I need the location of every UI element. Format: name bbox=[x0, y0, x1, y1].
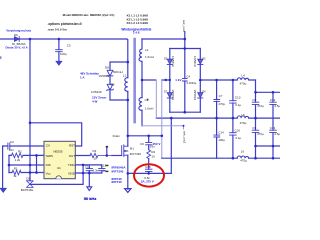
svg-text:50 kHz: 50 kHz bbox=[84, 196, 97, 201]
svg-text:.options plotwinsize=0: .options plotwinsize=0 bbox=[48, 22, 82, 26]
svg-text:M1: M1 bbox=[130, 147, 134, 151]
svg-text:NE555: NE555 bbox=[53, 149, 63, 153]
svg-text:1.6mH: 1.6mH bbox=[145, 55, 154, 59]
svg-text:D6: D6 bbox=[14, 33, 18, 37]
svg-text:C4: C4 bbox=[186, 75, 190, 79]
svg-text:D4: D4 bbox=[202, 90, 206, 94]
svg-text:R4: R4 bbox=[151, 150, 155, 154]
svg-text:R1: R1 bbox=[14, 167, 18, 171]
svg-text:C7: C7 bbox=[219, 94, 223, 98]
svg-text:TRIG: TRIG bbox=[68, 163, 75, 167]
svg-text:D5: D5 bbox=[164, 56, 168, 60]
svg-text:IRF7340: IRF7340 bbox=[130, 152, 142, 156]
svg-text:D7: D7 bbox=[164, 90, 168, 94]
svg-text:RST: RST bbox=[69, 144, 75, 148]
svg-text:IRF740: IRF740 bbox=[112, 180, 122, 184]
svg-text:C2: C2 bbox=[10, 140, 14, 144]
svg-text:1N5819: 1N5819 bbox=[171, 56, 175, 67]
svg-text:C5: C5 bbox=[67, 44, 71, 48]
svg-text:sek_out1: sek_out1 bbox=[182, 20, 186, 33]
svg-text:0.0033µ: 0.0033µ bbox=[187, 81, 197, 85]
svg-text:C13: C13 bbox=[270, 126, 276, 130]
svg-text:0.1µ: 0.1µ bbox=[235, 103, 241, 107]
svg-text:THRS: THRS bbox=[45, 154, 53, 158]
svg-text:C10: C10 bbox=[235, 96, 241, 100]
svg-text:L2: L2 bbox=[145, 48, 149, 52]
svg-text:IRF7340: IRF7340 bbox=[112, 170, 124, 174]
svg-text:L1: L1 bbox=[123, 73, 127, 77]
svg-text:Diode 20 V, >2 A: Diode 20 V, >2 A bbox=[6, 46, 29, 50]
svg-text:4.5µ: 4.5µ bbox=[274, 104, 280, 108]
svg-text:C14: C14 bbox=[218, 131, 224, 135]
svg-text:BAT54RL: BAT54RL bbox=[21, 188, 34, 192]
svg-text:D9: D9 bbox=[111, 83, 115, 87]
svg-text:C9: C9 bbox=[252, 126, 256, 130]
svg-text:0.1µ: 0.1µ bbox=[235, 136, 241, 140]
svg-text:1N5819: 1N5819 bbox=[193, 90, 197, 101]
svg-text:.tran 0 6.5 5m: .tran 0 6.5 5m bbox=[48, 27, 68, 31]
svg-text:DIS: DIS bbox=[46, 163, 51, 167]
svg-text:470µ: 470µ bbox=[240, 82, 247, 86]
svg-text:GND: GND bbox=[68, 171, 76, 175]
svg-text:10n: 10n bbox=[9, 148, 14, 152]
svg-text:CV: CV bbox=[46, 144, 50, 148]
svg-text:10: 10 bbox=[151, 155, 155, 159]
svg-text:C16: C16 bbox=[235, 129, 241, 133]
svg-text:C8: C8 bbox=[252, 98, 256, 102]
svg-text:10: 10 bbox=[93, 157, 97, 161]
svg-text:2A, 275 V: 2A, 275 V bbox=[141, 180, 154, 184]
svg-text:C1: C1 bbox=[85, 164, 89, 168]
svg-text:K3 L2 L3 0.998: K3 L2 L3 0.998 bbox=[127, 21, 148, 25]
svg-text:470µ: 470µ bbox=[240, 158, 247, 162]
svg-text:L6: L6 bbox=[241, 149, 245, 153]
svg-text:C12: C12 bbox=[270, 98, 276, 102]
svg-text:OUT: OUT bbox=[69, 154, 76, 158]
svg-text:1N5819: 1N5819 bbox=[171, 90, 175, 101]
svg-text:470µ: 470µ bbox=[218, 102, 225, 106]
svg-text:250 V: 250 V bbox=[153, 142, 161, 146]
svg-text:Verpolungsschutz: Verpolungsschutz bbox=[6, 28, 31, 32]
svg-text:3.3n: 3.3n bbox=[93, 169, 99, 173]
svg-text:1.2k: 1.2k bbox=[15, 158, 21, 162]
svg-text:1N5349: 1N5349 bbox=[91, 90, 102, 94]
svg-text:sek_out2: sek_out2 bbox=[182, 131, 186, 144]
svg-text:.Model MBR040 ako: MBR060 (VpA: .Model MBR040 ako: MBR060 (VpA=C1) bbox=[62, 13, 115, 17]
svg-text:470µ: 470µ bbox=[257, 104, 264, 108]
svg-text:C6: C6 bbox=[140, 142, 144, 146]
svg-text:470µ: 470µ bbox=[257, 132, 264, 136]
svg-text:1.6mH: 1.6mH bbox=[145, 107, 154, 111]
svg-text:500mH: 500mH bbox=[113, 70, 123, 74]
svg-text:D3: D3 bbox=[202, 56, 206, 60]
svg-text:1k: 1k bbox=[13, 174, 17, 178]
svg-text:100µ: 100µ bbox=[60, 52, 67, 56]
svg-text:R3: R3 bbox=[93, 149, 97, 153]
svg-text:1N5819: 1N5819 bbox=[193, 56, 197, 67]
svg-text:D8: D8 bbox=[105, 66, 109, 70]
svg-text:L5: L5 bbox=[241, 113, 245, 117]
svg-text:100µ: 100µ bbox=[218, 138, 225, 142]
svg-text:4.5µ: 4.5µ bbox=[274, 132, 280, 136]
svg-text:470µ: 470µ bbox=[240, 121, 247, 125]
svg-text:1:4.8: 1:4.8 bbox=[133, 31, 140, 35]
svg-text:U1: U1 bbox=[57, 166, 61, 170]
svg-text:Drain: Drain bbox=[113, 134, 121, 138]
svg-text:Vcc: Vcc bbox=[46, 171, 52, 175]
svg-text:1 kV: 1 kV bbox=[175, 78, 181, 82]
svg-text:4 W: 4 W bbox=[92, 100, 98, 104]
svg-text:L4: L4 bbox=[241, 74, 245, 78]
svg-text:D2: D2 bbox=[26, 177, 30, 181]
svg-text:1N5819: 1N5819 bbox=[99, 74, 110, 78]
svg-text:R2: R2 bbox=[18, 149, 22, 153]
